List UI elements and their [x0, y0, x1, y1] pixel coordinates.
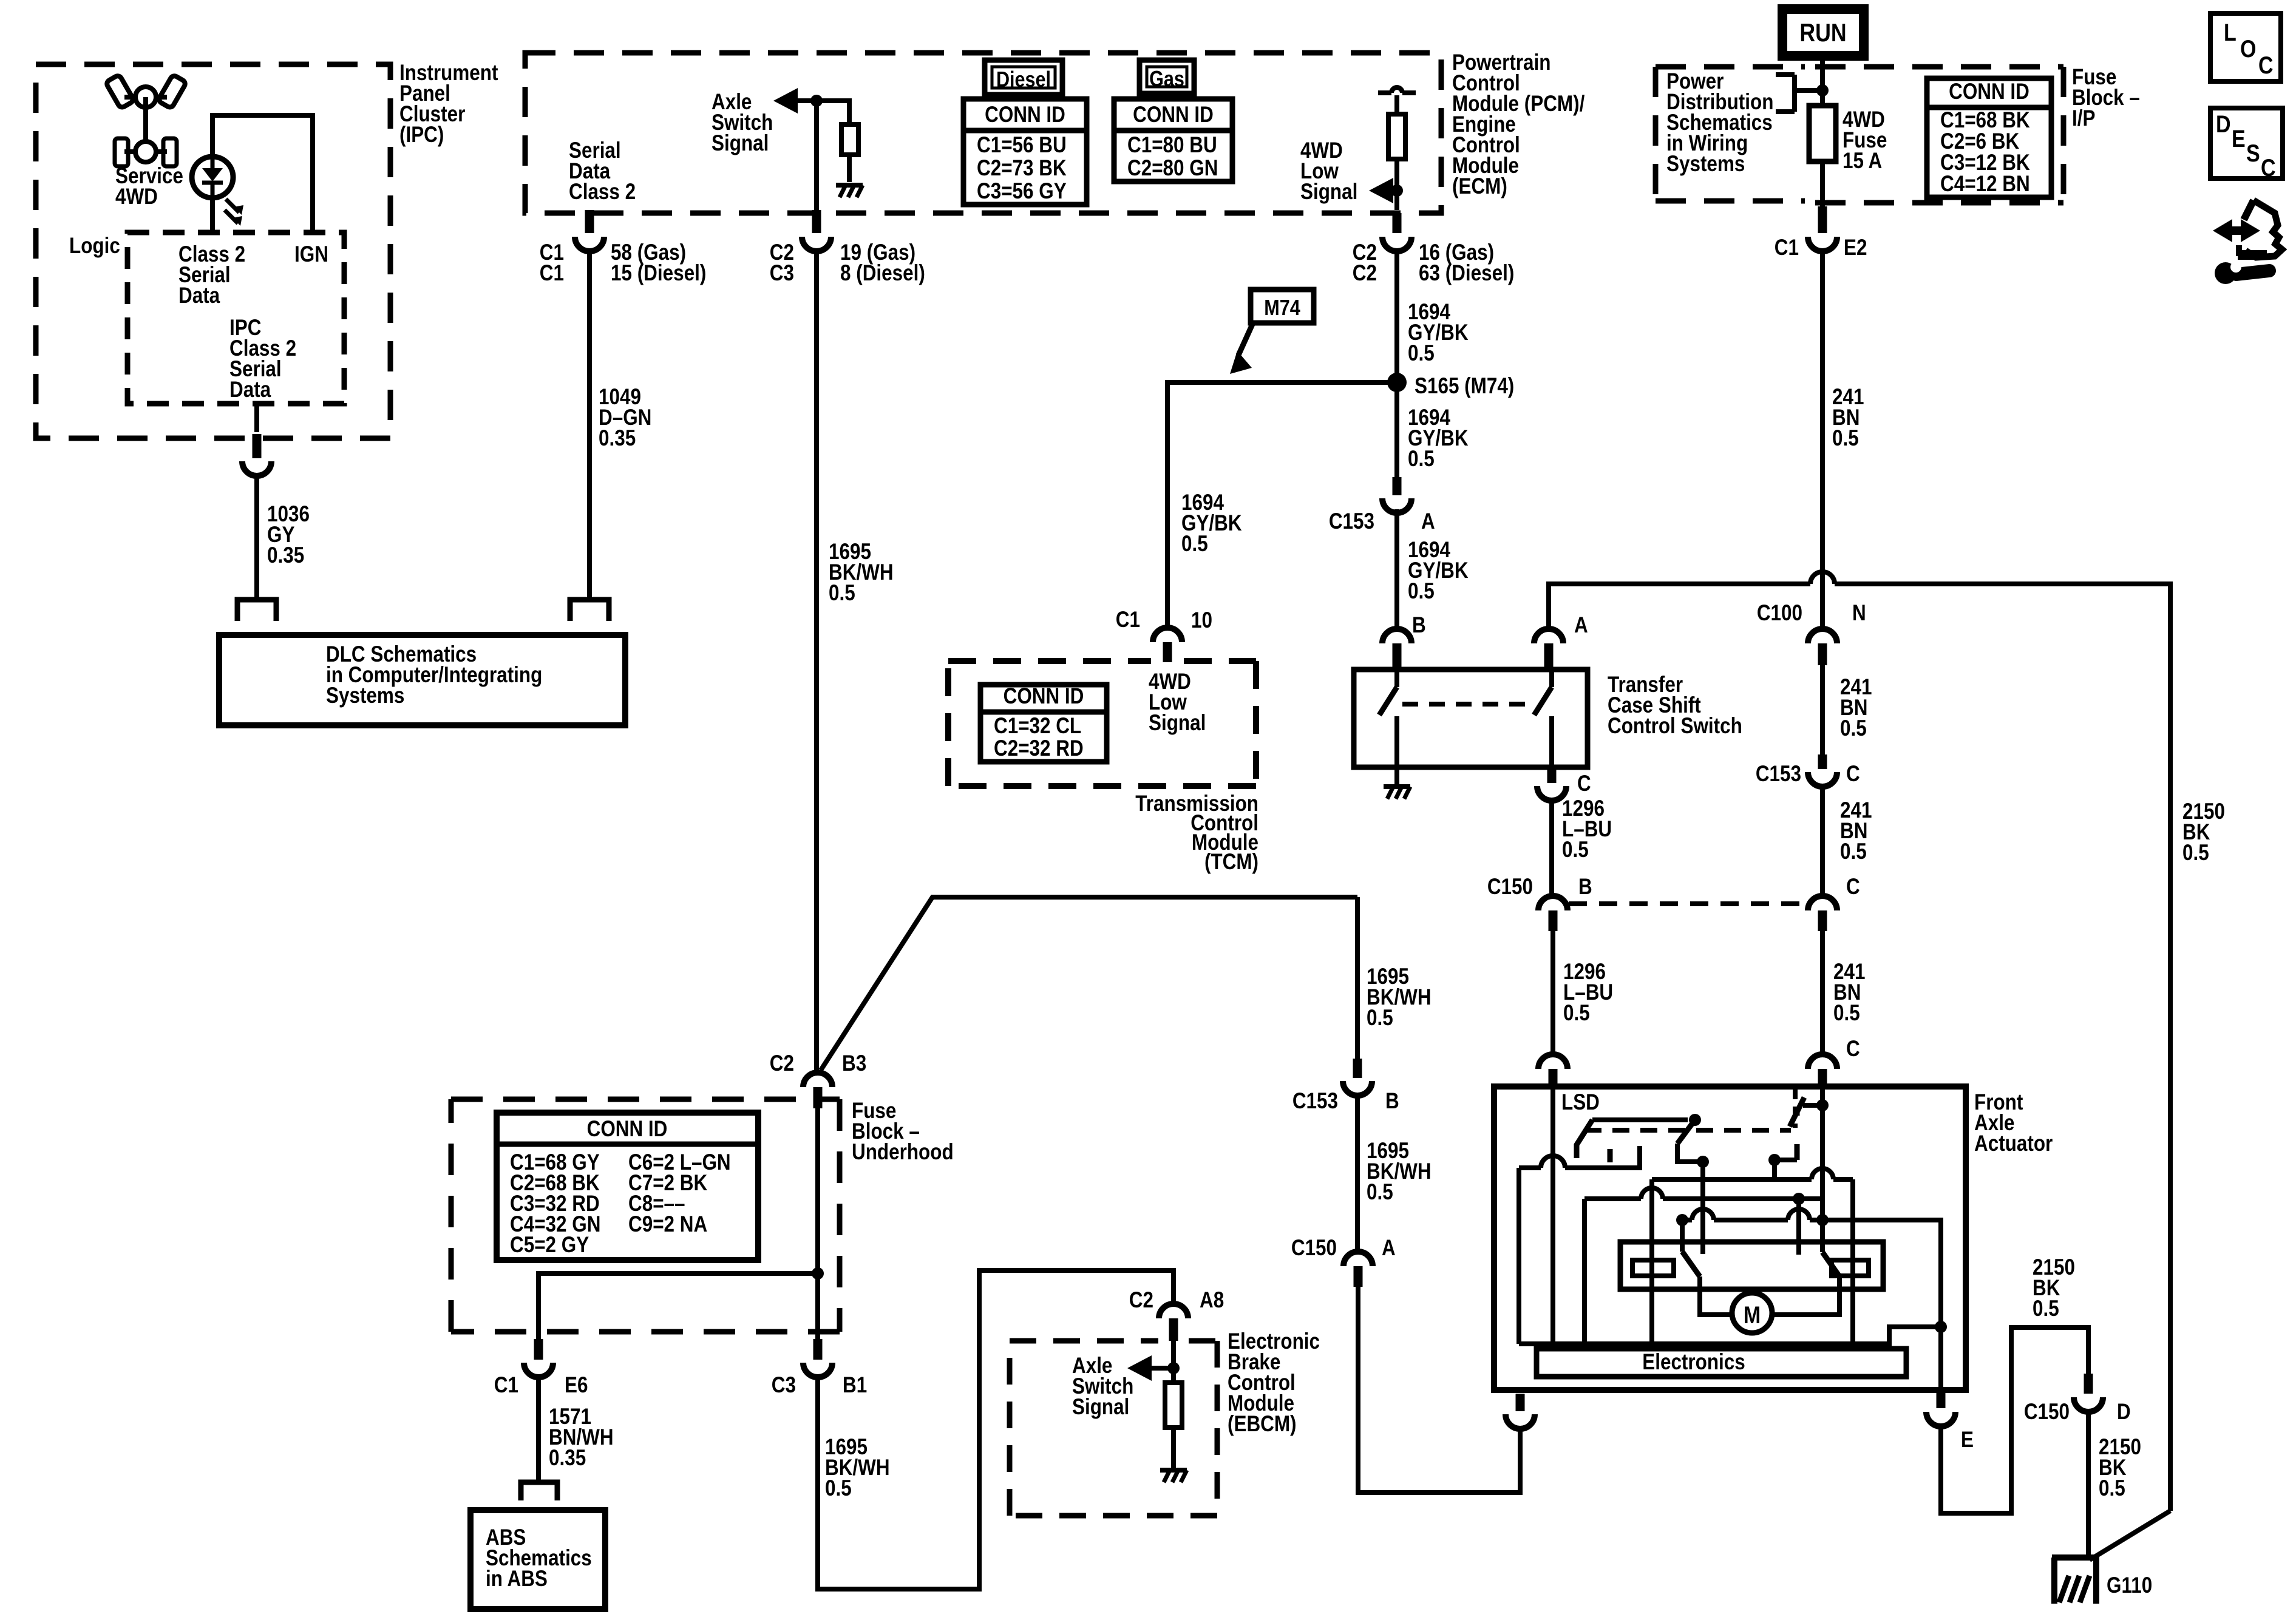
wire label 1036 GY 0.35: [267, 502, 310, 568]
connector TCSS B: [1394, 509, 1399, 630]
Service 4WD label: [115, 164, 183, 209]
svg-text:CONN ID: CONN ID: [1004, 684, 1084, 709]
svg-text:C2=73 BK: C2=73 BK: [977, 156, 1067, 181]
node H4 left: [1676, 1214, 1688, 1226]
svg-text:B3: B3: [842, 1051, 866, 1076]
svg-text:Data: Data: [229, 378, 271, 402]
wire 1695 BK/WH down to B3: [814, 251, 819, 1071]
svg-text:(EBCM): (EBCM): [1228, 1412, 1297, 1437]
TCSS label: [1608, 673, 1742, 739]
svg-text:C: C: [1577, 771, 1591, 796]
connector front axle actuator LSD: [1538, 1054, 1567, 1069]
connector C150/D: [2084, 1374, 2093, 1394]
svg-text:C3: C3: [770, 261, 794, 286]
connector C2/A8: [1159, 1304, 1188, 1318]
EBCM label: [1228, 1329, 1320, 1437]
pull-up resistor (PCM axle): [841, 124, 858, 155]
LSD wire (left chain into actuator): [1550, 1088, 1555, 1344]
wire label 2150 BK 0.5 (right): [2182, 799, 2225, 866]
svg-text:D: D: [2216, 110, 2231, 137]
svg-text:C4=12 BN: C4=12 BN: [1940, 172, 2030, 197]
right blade: [1790, 1097, 1804, 1127]
Serial Data Class 2 pin label: [569, 138, 636, 205]
wire 1694 GY/BK: [1394, 251, 1399, 477]
wire TCSS pin A up and across to 2150 BK: [1549, 584, 1810, 627]
TCSS ground: [1394, 767, 1399, 784]
relay frame box: [1620, 1242, 1883, 1289]
axle switch arrow (EBCM): [1127, 1355, 1152, 1381]
svg-text:C2=80 GN: C2=80 GN: [1127, 156, 1218, 181]
svg-text:A: A: [1421, 509, 1435, 534]
svg-text:(TCM): (TCM): [1204, 850, 1258, 875]
LSD left blade: [1577, 1120, 1592, 1158]
svg-text:M74: M74: [1264, 296, 1300, 320]
svg-text:Systems: Systems: [1666, 152, 1745, 177]
svg-text:B: B: [1385, 1089, 1399, 1114]
V2 wire: [1517, 1168, 1521, 1344]
connector C2/C2 (4WD low signal): [1393, 213, 1402, 233]
connector front axle actuator C: [1808, 1054, 1837, 1069]
motor M: [1732, 1293, 1772, 1333]
Fuse Block IP dashed box top/bottom/right: [1815, 64, 2063, 70]
svg-text:0.5: 0.5: [1367, 1180, 1393, 1205]
connector C150/C: [1808, 896, 1837, 910]
svg-text:C3=56 GY: C3=56 GY: [977, 179, 1067, 204]
svg-text:in ABS: in ABS: [486, 1567, 548, 1592]
svg-text:D: D: [2117, 1400, 2131, 1425]
svg-text:C: C: [2258, 51, 2274, 78]
connector C1/E6: [534, 1339, 543, 1360]
wire IPC serial data out: [254, 404, 259, 432]
svg-text:A: A: [1382, 1236, 1396, 1261]
svg-text:B: B: [1578, 875, 1592, 900]
right pivot jog: [1775, 1160, 1797, 1179]
svg-text:S: S: [2246, 139, 2260, 166]
wire C150A to actuator connector (U): [1358, 1287, 1520, 1493]
svg-text:A: A: [1574, 613, 1588, 638]
svg-text:C1: C1: [1116, 608, 1140, 632]
svg-text:C1: C1: [540, 261, 564, 286]
connector E: [1937, 1391, 1946, 1408]
Fuse Block Underhood dashed box: [451, 1099, 840, 1332]
node E jog: [1935, 1321, 1947, 1333]
terminal bracket DLC left: [237, 600, 276, 621]
connector C153/C: [1818, 754, 1827, 769]
Front Axle Actuator box: [1494, 1086, 1966, 1390]
svg-text:A8: A8: [1200, 1288, 1224, 1313]
svg-text:E6: E6: [565, 1373, 588, 1398]
bracket to RUN wire: [1776, 75, 1822, 112]
V4 wire through coil: [1649, 1179, 1654, 1344]
wire 1049 serial data: [587, 251, 592, 600]
svg-text:0.5: 0.5: [1408, 341, 1435, 366]
wire branch to TCM: [1167, 382, 1397, 628]
svg-text:0.5: 0.5: [825, 1476, 852, 1501]
svg-text:C: C: [1846, 1037, 1860, 1062]
wire RUN down: [1820, 56, 1825, 106]
svg-text:I/P: I/P: [2072, 106, 2095, 131]
svg-text:C2: C2: [1129, 1288, 1153, 1313]
right blade ticks: [1795, 1108, 1800, 1116]
wire LED top to IGN: [212, 115, 313, 232]
wire E to D (U path): [1941, 1327, 2088, 1513]
svg-text:0.5: 0.5: [1367, 1006, 1393, 1031]
LSD linkage dashed: [1584, 1128, 1791, 1133]
svg-text:Signal: Signal: [1149, 711, 1206, 736]
svg-text:C2: C2: [1353, 261, 1377, 286]
node on 4WD low wire: [1391, 185, 1403, 197]
connector at IPC bottom: [253, 434, 262, 458]
svg-text:C: C: [1846, 762, 1860, 787]
H5 wire: [1584, 1196, 1641, 1201]
connector TCSS C: [1547, 767, 1557, 783]
ABS Schematics box: [470, 1510, 605, 1609]
svg-text:IGN: IGN: [294, 242, 328, 267]
svg-text:C1: C1: [1775, 236, 1799, 260]
LOC box: [2210, 13, 2281, 81]
svg-text:Systems: Systems: [326, 683, 404, 708]
ground (PCM axle resistor): [836, 183, 863, 188]
Instrument Panel Cluster (IPC) dashed box: [36, 64, 390, 438]
svg-text:Electronics: Electronics: [1642, 1350, 1745, 1375]
svg-text:15 (Diesel): 15 (Diesel): [611, 261, 706, 286]
svg-text:Gas: Gas: [1149, 67, 1184, 92]
Axle Switch Signal label (EBCM): [1072, 1354, 1133, 1420]
svg-text:0.35: 0.35: [599, 426, 636, 451]
IPC Class 2 Serial Data label: [229, 316, 296, 402]
svg-text:(IPC): (IPC): [399, 123, 444, 147]
svg-text:C153: C153: [1292, 1089, 1338, 1114]
svg-text:E: E: [2232, 124, 2246, 152]
Powertrain Control Module (PCM)/ECM dashed box: [525, 53, 1441, 213]
Service 4WD drivetrain icon: [106, 75, 187, 166]
svg-text:0.35: 0.35: [267, 543, 304, 568]
ground (EBCM): [1160, 1468, 1187, 1473]
4WD low arrow: [1369, 178, 1393, 203]
svg-text:C1=56 BU: C1=56 BU: [977, 133, 1067, 158]
svg-text:Data: Data: [178, 283, 220, 308]
connector C3/B1: [813, 1339, 823, 1360]
ground G110: [2052, 1554, 2099, 1561]
svg-text:Signal: Signal: [712, 131, 769, 156]
wire D to ground: [2086, 1412, 2091, 1558]
connector C153/B: [1353, 1059, 1362, 1078]
node H4 right: [1816, 1214, 1829, 1226]
svg-text:CONN ID: CONN ID: [587, 1117, 668, 1142]
svg-text:C1: C1: [494, 1373, 518, 1398]
svg-text:0.5: 0.5: [1562, 838, 1589, 863]
Front Axle Actuator label: [1974, 1090, 2053, 1156]
4WD Low Signal label (PCM): [1300, 138, 1357, 205]
node H5/V7: [1793, 1193, 1805, 1205]
svg-text:S165 (M74): S165 (M74): [1415, 374, 1514, 399]
node top of middle blade: [1689, 1114, 1701, 1126]
V8 wire (right chain inside): [1820, 1088, 1825, 1252]
Fuse Block IP label: [2072, 65, 2140, 131]
svg-text:0.5: 0.5: [1563, 1001, 1590, 1026]
connector C150/A: [1343, 1252, 1373, 1266]
Diesel label box: [985, 60, 1062, 95]
svg-text:E: E: [1961, 1428, 1974, 1453]
resistor (EBCM): [1165, 1383, 1182, 1428]
node right pivot: [1768, 1154, 1781, 1166]
svg-text:C: C: [2261, 154, 2276, 181]
svg-text:CONN ID: CONN ID: [985, 103, 1065, 127]
svg-text:C3: C3: [772, 1373, 796, 1398]
svg-text:0.5: 0.5: [1840, 839, 1867, 864]
V5 contact wire: [1700, 1162, 1705, 1254]
CONN ID table (TCM): [980, 685, 1107, 762]
connector C2/C3 (axle switch signal): [812, 210, 821, 233]
svg-text:C153: C153: [1756, 762, 1801, 787]
IPC logic inner dashed box: [127, 232, 344, 404]
connector C153/A: [1393, 477, 1402, 495]
TCM label: [1135, 792, 1258, 875]
connector C150/B: [1538, 896, 1567, 910]
svg-text:63 (Diesel): 63 (Diesel): [1419, 261, 1514, 286]
connector TCSS A: [1534, 629, 1563, 643]
axle switch arrow (PCM): [773, 88, 798, 114]
svg-text:M: M: [1744, 1301, 1761, 1328]
svg-text:C: C: [1846, 875, 1860, 900]
svg-text:Logic: Logic: [69, 234, 120, 259]
Fuse Block Underhood label: [852, 1099, 954, 1165]
svg-text:0.5: 0.5: [1833, 1001, 1860, 1026]
svg-text:N: N: [1852, 601, 1866, 626]
svg-text:C100: C100: [1757, 601, 1802, 626]
left coil: [1632, 1260, 1674, 1276]
connector actuator LSD return: [1516, 1394, 1525, 1411]
wire LED bottom to Class 2 pin: [210, 198, 215, 232]
svg-text:0.5: 0.5: [1181, 532, 1208, 557]
svg-text:Signal: Signal: [1300, 180, 1357, 205]
svg-text:G110: G110: [2107, 1573, 2152, 1598]
hand & wrench icon: [2213, 200, 2282, 284]
svg-text:CONN ID: CONN ID: [1133, 103, 1214, 127]
svg-text:Control Switch: Control Switch: [1608, 714, 1742, 739]
wire B1 to EBCM: [818, 1270, 1173, 1589]
EBCM dashed box: [1010, 1341, 1217, 1516]
svg-text:Class 2: Class 2: [569, 180, 636, 205]
svg-text:15 A: 15 A: [1843, 149, 1882, 174]
svg-text:L: L: [2224, 18, 2237, 46]
M74 label box: [1251, 290, 1314, 323]
dashed line C150 B-C: [1569, 901, 1807, 906]
wire axle signal to pin: [814, 101, 819, 210]
svg-text:10: 10: [1191, 608, 1212, 633]
svg-text:C2: C2: [770, 1051, 794, 1076]
svg-text:C150: C150: [1487, 875, 1533, 900]
middle blade: [1677, 1120, 1695, 1144]
svg-text:0.5: 0.5: [1832, 426, 1859, 451]
node at RUN wire: [1816, 84, 1829, 97]
terminal bracket DLC right: [570, 600, 609, 621]
connector C1/10 (TCM): [1153, 628, 1182, 642]
bus wire into electronics and jog to E: [1519, 1327, 1941, 1344]
DLC Schematics box: [219, 635, 625, 725]
resistor (PCM 4WD low): [1388, 114, 1405, 159]
connector C1/C1 (serial data): [585, 210, 594, 233]
Class 2 Serial Data pin label: [178, 242, 245, 308]
DESC box: [2210, 108, 2283, 178]
4WD Low Signal label (TCM): [1149, 670, 1206, 736]
terminal bracket ABS: [521, 1482, 557, 1500]
wire S165 down: [1394, 382, 1399, 477]
CONN ID table (underhood): [497, 1113, 758, 1260]
svg-text:8 (Diesel): 8 (Diesel): [840, 261, 925, 286]
Power Distribution dashed box: [1656, 64, 1805, 70]
svg-text:C9=2 NA: C9=2 NA: [628, 1212, 707, 1237]
diagonal 2150 BK to ground: [2090, 1511, 2170, 1560]
node right blade top: [1816, 1099, 1829, 1111]
node: axle switch junction: [810, 95, 823, 107]
TCSS switch left blade: [1394, 670, 1399, 687]
connector C100/N: [1820, 573, 1825, 630]
svg-text:RUN: RUN: [1799, 19, 1846, 47]
svg-text:C150: C150: [1291, 1236, 1337, 1261]
svg-text:C5=2 GY: C5=2 GY: [510, 1233, 589, 1258]
svg-text:0.5: 0.5: [1408, 579, 1435, 604]
svg-text:B1: B1: [843, 1373, 867, 1398]
linkage to case dashed: [1793, 1090, 1798, 1128]
Transfer Case Shift Control Switch box: [1354, 670, 1588, 767]
svg-text:Diesel: Diesel: [996, 68, 1051, 92]
svg-text:0.35: 0.35: [549, 1446, 586, 1471]
svg-text:LSD: LSD: [1561, 1090, 1600, 1115]
Gas label box: [1140, 60, 1194, 93]
right coil: [1832, 1260, 1869, 1276]
svg-text:C2=32 RD: C2=32 RD: [994, 736, 1084, 761]
svg-text:0.5: 0.5: [2033, 1297, 2059, 1321]
M74 arrow: [1238, 323, 1253, 355]
svg-text:Underhood: Underhood: [852, 1140, 954, 1165]
V9 wire through right coil: [1850, 1179, 1855, 1344]
inner blade 2: [1820, 1220, 1825, 1252]
contact tick: [1608, 1149, 1613, 1162]
svg-text:0.5: 0.5: [1840, 716, 1867, 741]
PCM label: [1452, 50, 1585, 199]
CONN ID table (Gas): [1114, 99, 1232, 181]
Axle Switch Signal label (PCM): [712, 90, 773, 156]
TCSS linkage dashed: [1402, 702, 1530, 707]
svg-text:4WD: 4WD: [115, 185, 158, 209]
svg-text:B: B: [1412, 613, 1426, 638]
wire 241 BN down: [1820, 251, 1825, 573]
internal wire to E6: [538, 1273, 818, 1339]
V7 contact wire: [1796, 1199, 1801, 1255]
svg-text:0.5: 0.5: [1408, 447, 1435, 472]
inner blade 1: [1680, 1220, 1685, 1252]
svg-text:0.5: 0.5: [2182, 841, 2209, 866]
CONN ID table (Diesel): [963, 99, 1087, 205]
indicator LED: [192, 157, 243, 226]
svg-text:(ECM): (ECM): [1452, 174, 1507, 199]
IPC label: [399, 61, 498, 147]
Electronics box: [1537, 1349, 1906, 1377]
svg-text:C153: C153: [1329, 509, 1374, 534]
node middle pivot: [1697, 1156, 1709, 1168]
node EBCM: [1167, 1362, 1180, 1374]
H4 wire with hops: [1682, 1218, 1692, 1222]
svg-text:CONN ID: CONN ID: [1949, 80, 2029, 104]
hop over 241 BN wire: [1810, 572, 1835, 584]
V3 wire: [1582, 1199, 1587, 1344]
splice S165 (M74): [1387, 373, 1407, 392]
diagonal branch to C153/B: [821, 897, 1357, 1070]
svg-text:Signal: Signal: [1072, 1395, 1129, 1420]
4WD low internal bar: [1378, 90, 1391, 95]
H1 wire with hop: [1519, 1165, 1541, 1170]
CONN ID table (Fuse Block IP): [1927, 78, 2051, 197]
node fuse block: [812, 1267, 824, 1280]
connector C1/E2: [1818, 206, 1827, 233]
wire B3 through fuse block: [815, 1108, 820, 1339]
RUN box: [1782, 9, 1864, 56]
svg-text:E2: E2: [1844, 236, 1867, 260]
svg-text:C1=80 BU: C1=80 BU: [1127, 133, 1217, 158]
svg-text:0.5: 0.5: [829, 581, 855, 606]
TCSS switch right blade: [1549, 670, 1554, 687]
4WD Fuse 15A: [1809, 106, 1836, 161]
svg-text:0.5: 0.5: [2099, 1476, 2125, 1501]
svg-text:C1=32 CL: C1=32 CL: [994, 714, 1081, 739]
connector C2/B3: [803, 1073, 832, 1087]
H3 wire: [1700, 1162, 1705, 1179]
svg-text:C150: C150: [2024, 1400, 2070, 1425]
svg-text:O: O: [2240, 35, 2256, 62]
svg-text:Actuator: Actuator: [1974, 1131, 2053, 1156]
Transmission Control Module dashed box: [948, 661, 1256, 786]
